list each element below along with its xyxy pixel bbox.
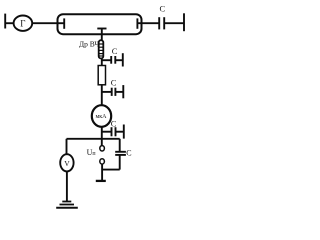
- svg-text:C: C: [126, 149, 131, 158]
- svg-text:C: C: [160, 3, 166, 13]
- svg-text:C: C: [112, 46, 118, 56]
- svg-text:Г: Г: [20, 18, 25, 28]
- svg-text:мкА: мкА: [95, 114, 107, 120]
- svg-text:C: C: [111, 77, 117, 87]
- svg-text:V: V: [64, 159, 70, 168]
- svg-text:C: C: [111, 118, 117, 128]
- svg-text:Др ВЧ: Др ВЧ: [79, 40, 99, 49]
